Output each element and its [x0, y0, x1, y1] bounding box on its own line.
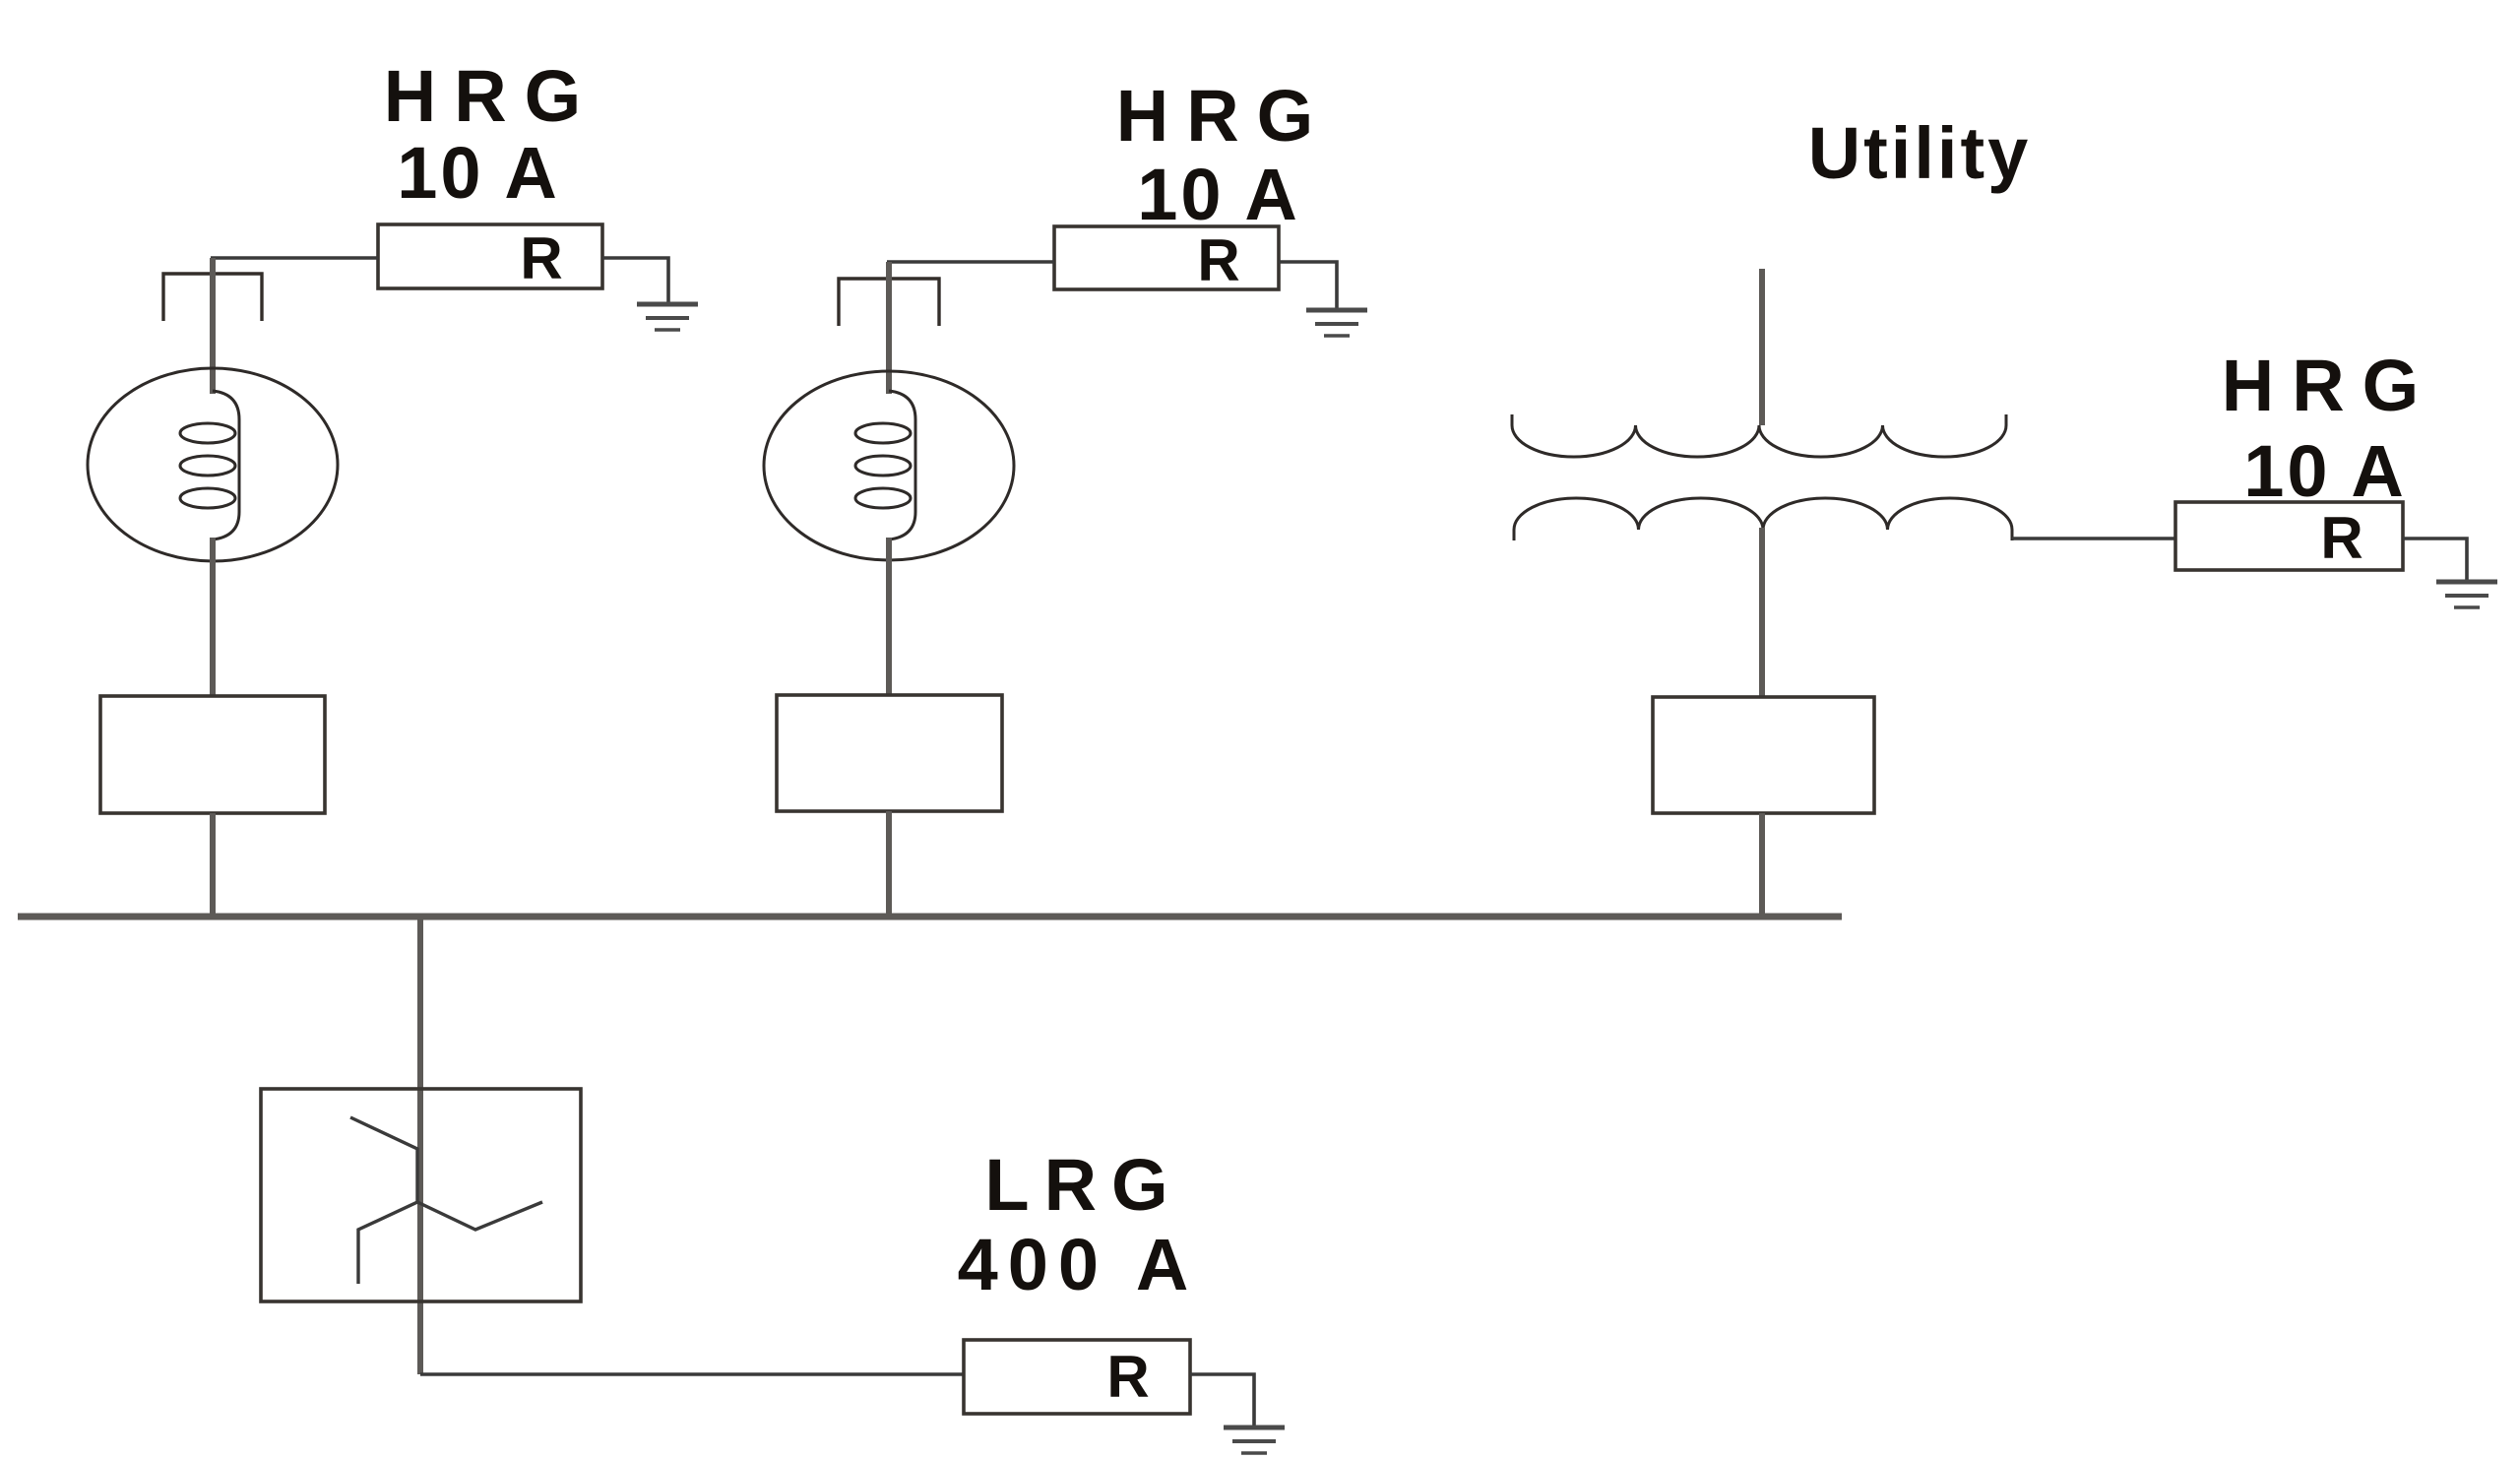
- svg-text:10 A: 10 A: [1137, 154, 1300, 235]
- svg-text:10 A: 10 A: [397, 132, 560, 214]
- transformer T1 (utility) secondary winding: [1514, 498, 2012, 540]
- wire transformer secondary to HRG resistor R3: [2012, 537, 2175, 540]
- label HRG 10 A (utility grounding resistor): [2222, 345, 2436, 512]
- generator G2: [764, 371, 1014, 560]
- svg-text:R: R: [520, 225, 562, 291]
- zigzag grounding transformer: [261, 1089, 581, 1301]
- bus (main horizontal bus bar): [18, 914, 1842, 920]
- wire G1 neutral to R1: [211, 256, 378, 260]
- wye bracket at generator G2 neutral: [839, 279, 939, 326]
- ground (LRG resistor earth): [1224, 1427, 1285, 1453]
- ground (G1 resistor earth): [637, 304, 698, 330]
- generator G1: [88, 368, 338, 561]
- breaker CB1: [100, 696, 325, 813]
- svg-text:400 A: 400 A: [958, 1224, 1199, 1305]
- wire utility incoming: [1759, 269, 1765, 425]
- wire CB2 to bus: [886, 811, 892, 917]
- resistor R1: [378, 224, 602, 288]
- breaker CB2: [777, 695, 1002, 811]
- wire generator G2 stem (bottom): [886, 538, 892, 695]
- svg-text:R: R: [1197, 227, 1239, 293]
- svg-text:R: R: [2320, 505, 2362, 571]
- resistor R4 (LRG 400 A): [964, 1340, 1190, 1414]
- label HRG 10 A (generator G2 grounding resistor): [1116, 75, 1331, 235]
- wire grounding transformer neutral to R4: [420, 1372, 964, 1376]
- svg-text:LRG: LRG: [984, 1144, 1182, 1226]
- wire R1 to ground: [602, 258, 668, 304]
- wire bus feeder to grounding transformer: [417, 917, 423, 1374]
- svg-text:HRG: HRG: [1116, 75, 1331, 157]
- label HRG 10 A (generator G1 grounding resistor): [384, 55, 598, 214]
- breaker CB3: [1653, 697, 1874, 813]
- wye bracket at generator G1 neutral: [163, 274, 262, 321]
- wire generator G1 stem (bottom): [210, 538, 216, 696]
- resistor R2: [1054, 226, 1279, 289]
- wire CB3 to bus: [1759, 813, 1765, 917]
- svg-text:HRG: HRG: [2222, 345, 2436, 426]
- wire R2 to ground: [1279, 262, 1337, 310]
- svg-text:HRG: HRG: [384, 55, 598, 137]
- ground (utility resistor earth): [2436, 582, 2497, 607]
- wire G2 neutral to R2: [887, 260, 1054, 264]
- svg-text:R: R: [1106, 1344, 1149, 1410]
- label LRG 400 A: [958, 1144, 1199, 1305]
- transformer T1 (utility) primary winding: [1512, 414, 2006, 457]
- svg-text:Utility: Utility: [1808, 112, 2032, 194]
- wire generator G1 stem (top): [210, 258, 216, 394]
- resistor R3: [2175, 502, 2403, 570]
- svg-text:10 A: 10 A: [2243, 430, 2407, 512]
- wire R4 to ground: [1190, 1374, 1254, 1427]
- wire transformer secondary center to CB3: [1759, 528, 1765, 697]
- wire CB1 to bus: [210, 813, 216, 917]
- wire R3 to ground: [2403, 539, 2467, 582]
- ground (G2 resistor earth): [1306, 310, 1367, 336]
- wire generator G2 stem (top): [886, 262, 892, 394]
